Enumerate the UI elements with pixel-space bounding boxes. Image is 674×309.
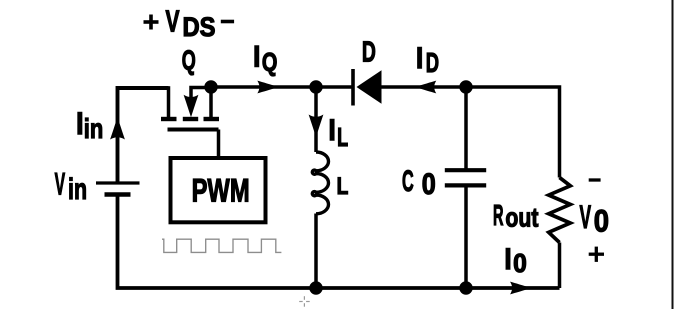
svg-text:L: L [337,173,349,200]
svg-text:0: 0 [594,202,609,238]
svg-text:I: I [504,241,513,277]
svg-text:0: 0 [422,168,436,201]
svg-text:I: I [415,39,424,75]
svg-text:V: V [55,166,66,202]
svg-text:PWM: PWM [192,173,250,209]
svg-text:I: I [252,38,261,74]
svg-text:in: in [68,173,87,206]
svg-text:Q: Q [182,45,196,76]
svg-text:D: D [426,47,439,78]
svg-text:R: R [493,200,504,232]
svg-text:V: V [580,199,592,235]
svg-text:Q: Q [262,47,278,77]
svg-text:out: out [505,202,538,232]
svg-text:C: C [402,165,414,198]
svg-text:I: I [328,112,337,148]
svg-text:L: L [337,122,348,152]
svg-text:0: 0 [513,248,527,278]
svg-text:DS: DS [183,12,216,42]
svg-text:V: V [166,4,180,39]
svg-text:in: in [84,113,104,144]
svg-text:D: D [362,37,376,69]
